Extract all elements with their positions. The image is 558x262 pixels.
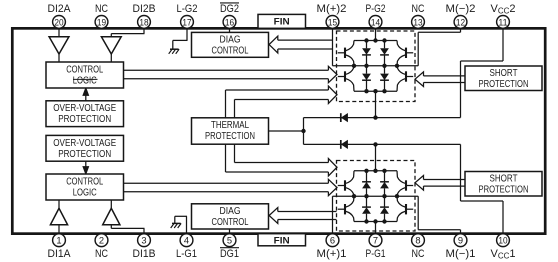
svg-text:M(+)2: M(+)2 xyxy=(317,3,347,15)
pin 11 (VCC2) top xyxy=(497,16,510,29)
svg-text:NC: NC xyxy=(95,248,108,260)
pin 12 (M(−)2) top xyxy=(454,16,467,29)
wire Vcc1 up to sense line 1 xyxy=(460,144,462,201)
IC package outline xyxy=(12,28,545,233)
svg-text:PROTECTION: PROTECTION xyxy=(205,131,255,142)
svg-text:17: 17 xyxy=(182,17,191,28)
thermal protection box xyxy=(192,118,269,144)
bridge 2 (output stage 2) top rail xyxy=(354,40,397,42)
wire pin1 to buffer A1 xyxy=(58,224,60,234)
pin label VCC2 xyxy=(490,3,515,16)
svg-text:13: 13 xyxy=(413,17,422,28)
svg-text:DG1: DG1 xyxy=(220,248,239,260)
transistor bridge 2 (output stage 2) lower-left xyxy=(338,66,354,91)
diode bridge 1 (output stage 1) lower col x=366.5 xyxy=(362,196,371,221)
wire pin10 Vcc1 riser xyxy=(502,201,504,236)
block arrow bridge 2 to diag control 2 xyxy=(269,36,333,53)
svg-text:P-G2: P-G2 xyxy=(366,3,386,15)
svg-text:NC: NC xyxy=(412,3,425,15)
wire M(-)1 drop xyxy=(417,196,419,230)
svg-text:8: 8 xyxy=(415,236,420,247)
wire M(-)1 from bridge 1 node xyxy=(397,195,419,197)
wire M(+)1 into bridge 1 xyxy=(333,195,355,197)
pin label M(-)1 xyxy=(446,248,476,260)
svg-text:14: 14 xyxy=(371,17,381,28)
wire pin17 elbow xyxy=(173,39,188,41)
svg-text:THERMAL: THERMAL xyxy=(211,120,249,131)
svg-text:LOGIC: LOGIC xyxy=(73,188,97,199)
svg-text:DIAG: DIAG xyxy=(220,35,241,46)
wire pin3 riser xyxy=(143,228,145,233)
svg-text:M(−)2: M(−)2 xyxy=(446,3,476,15)
block arrow thermal protection to bridge 1 (risers) xyxy=(234,144,236,162)
svg-text:FIN: FIN xyxy=(274,16,290,27)
wire M(-)2 riser xyxy=(417,32,419,66)
bridge 2 (output stage 2) bottom rail xyxy=(354,90,397,92)
wire pin3 elbow horizontal xyxy=(111,227,144,229)
svg-text:OVER-VOLTAGE: OVER-VOLTAGE xyxy=(53,138,116,149)
buffer DI1A input xyxy=(50,208,67,225)
bridge 1 (output stage 1) dashed box xyxy=(337,161,416,232)
wire pin20 to buffer A2 xyxy=(58,28,60,38)
pin label P-G2 xyxy=(366,3,386,15)
wire sense line 2 xyxy=(304,117,461,119)
buffer DI2B input xyxy=(101,37,121,54)
svg-text:9: 9 xyxy=(458,236,463,247)
strikethrough artifact over LOGIC (top) xyxy=(73,78,98,80)
svg-text:SHORT: SHORT xyxy=(490,174,518,185)
wire pin4 riser xyxy=(186,216,188,233)
diode bridge 2 (output stage 2) upper col x=384.5 xyxy=(380,41,389,66)
transistor bridge 1 (output stage 1) lower-left xyxy=(338,196,354,221)
wire buffer B1 to control logic 1 xyxy=(110,200,112,209)
node thermal junction xyxy=(301,129,305,133)
wire pin14 P-G2 riser xyxy=(375,28,377,40)
wire Vcc2 down to sense line 2 xyxy=(460,61,462,118)
wire thermal junction vertical xyxy=(303,118,305,145)
svg-text:DI2B: DI2B xyxy=(133,3,156,15)
ground G1 (logic ground) xyxy=(171,223,181,228)
svg-text:4: 4 xyxy=(184,236,190,247)
buffer DI1B input xyxy=(103,208,120,225)
pin label NC (2) xyxy=(95,248,108,260)
wire stub to buffer B2 top xyxy=(110,34,112,38)
pin label M(+)2 xyxy=(317,3,347,15)
transistor bridge 1 (output stage 1) upper-right xyxy=(397,171,413,196)
svg-text:3: 3 xyxy=(141,236,146,247)
pin label NC (13) xyxy=(412,3,425,15)
pin label L-G2 xyxy=(177,3,198,15)
svg-text:6: 6 xyxy=(330,236,335,247)
wire pin15 M(+)2 riser xyxy=(332,28,334,66)
node sense 2 / bridge 2 drop xyxy=(373,115,377,119)
svg-text:DI1B: DI1B xyxy=(133,248,156,260)
block arrow short protection 1 to bridge 1 xyxy=(415,176,465,191)
svg-text:NC: NC xyxy=(412,248,425,260)
diode bridge 2 (output stage 2) upper col x=366.5 xyxy=(362,41,371,66)
diag control 2 box xyxy=(192,32,269,57)
svg-text:CONTROL: CONTROL xyxy=(66,177,103,188)
buffer DI2A input xyxy=(49,37,69,54)
transistor bridge 2 (output stage 2) upper-left xyxy=(338,41,354,66)
pin 15 (M(+)2) top xyxy=(326,16,339,29)
svg-text:LOGIC: LOGIC xyxy=(73,76,97,87)
diode bridge 1 (output stage 1) upper col x=384.5 xyxy=(380,171,389,196)
svg-text:5: 5 xyxy=(227,236,232,247)
svg-text:M(−)1: M(−)1 xyxy=(446,248,476,260)
svg-text:2: 2 xyxy=(99,236,104,247)
junction dots bridge 1 (output stage 1) xyxy=(352,169,399,224)
pin 7 (P-G1) bottom xyxy=(369,234,382,247)
transistor bridge 1 (output stage 1) lower-right xyxy=(397,196,413,221)
bridge 1 (output stage 1) top rail xyxy=(354,170,397,172)
block arrow thermal protection to bridge 2 xyxy=(226,86,338,104)
wire pin16 to diag control 2 xyxy=(229,27,231,33)
short protection 1 box xyxy=(465,172,542,197)
wire stub to ground 1 xyxy=(174,216,176,223)
FIN tab box (top) xyxy=(258,14,306,28)
pin 5 (DG1) bottom xyxy=(223,234,236,247)
svg-text:OVER-VOLTAGE: OVER-VOLTAGE xyxy=(53,103,116,114)
bridge 1 (output stage 1) bottom rail xyxy=(354,221,397,223)
wire pin18 elbow horizontal xyxy=(111,33,144,35)
FIN tab box (bottom) xyxy=(258,234,306,246)
block arrow control logic 2 to bridge 2 xyxy=(124,66,338,82)
pin 2 (NC) bottom xyxy=(95,234,108,247)
pin label DI2B xyxy=(133,3,156,15)
bridge 1 (output stage 1) mid rail xyxy=(354,195,397,197)
svg-text:L-G2: L-G2 xyxy=(177,3,198,15)
wire over-voltage 2 to control logic 2 xyxy=(85,88,87,101)
svg-text:15: 15 xyxy=(328,17,337,28)
pin 13 (NC) top xyxy=(412,16,425,29)
wire pin7 P-G1 riser xyxy=(375,222,377,234)
pin 20 (DI2A) top xyxy=(53,16,66,29)
transistor bridge 2 (output stage 2) lower-right xyxy=(397,66,413,91)
wire M(-)2 horizontal xyxy=(418,31,460,33)
pin 17 (L-G2) top xyxy=(181,16,194,29)
pin label P-G1 xyxy=(366,248,386,260)
svg-text:DI2A: DI2A xyxy=(48,3,72,15)
over-voltage protection 2 box xyxy=(46,101,124,127)
svg-text:CONTROL: CONTROL xyxy=(212,45,249,56)
pin 4 (L-G1) bottom xyxy=(180,234,193,247)
wire buffer A2 to control logic 2 xyxy=(58,54,60,63)
svg-text:20: 20 xyxy=(54,17,63,28)
pin label DG2 (with overline) xyxy=(220,3,239,15)
arrowhead up into control logic 2 xyxy=(83,88,88,95)
arrowhead down into control logic 1 xyxy=(83,167,88,174)
wire M(-)1 to pin9 xyxy=(460,230,462,236)
pin 10 (VCC1) bottom xyxy=(497,234,510,247)
wire buffer A1 to control logic 1 xyxy=(58,200,60,209)
svg-text:10: 10 xyxy=(498,236,507,247)
wire M(-)2 to pin12 xyxy=(460,27,462,33)
bridge 2 (output stage 2) mid rail xyxy=(354,65,397,67)
pin 1 (DI1A) bottom xyxy=(53,234,66,247)
wire bridge 1 top rail riser xyxy=(375,144,377,170)
diode bridge 1 (output stage 1) upper col x=366.5 xyxy=(362,171,371,196)
svg-text:CONTROL: CONTROL xyxy=(212,217,249,228)
svg-text:NC: NC xyxy=(95,3,108,15)
svg-text:SHORT: SHORT xyxy=(490,68,518,79)
diode bridge 1 (output stage 1) lower col x=384.5 xyxy=(380,196,389,221)
wire pin11 Vcc2 drop xyxy=(502,27,504,62)
wire Vcc1 horizontal xyxy=(461,200,504,202)
pin 14 (P-G2) top xyxy=(369,16,382,29)
svg-text:PROTECTION: PROTECTION xyxy=(479,79,529,90)
short protection 2 box xyxy=(465,66,542,91)
diode bridge 2 (output stage 2) lower col x=366.5 xyxy=(362,66,371,91)
svg-text:1: 1 xyxy=(56,236,61,247)
wire pin6 M(+)1 riser xyxy=(332,196,334,234)
diode D2 (sense line 2 to thermal junction) xyxy=(341,113,348,122)
pin label M(+)1 xyxy=(317,248,347,260)
svg-text:PROTECTION: PROTECTION xyxy=(479,185,529,196)
node sense 1 / bridge 1 riser xyxy=(373,142,377,146)
wire M(-)1 horizontal xyxy=(418,229,460,231)
transistor bridge 2 (output stage 2) upper-right xyxy=(397,41,413,66)
svg-text:7: 7 xyxy=(373,236,378,247)
pin 3 (DI1B) bottom xyxy=(138,234,151,247)
svg-text:L-G1: L-G1 xyxy=(176,248,197,260)
pin 16 (DG2) top xyxy=(223,16,236,29)
svg-text:12: 12 xyxy=(456,17,465,28)
pin label NC (19) xyxy=(95,3,108,15)
svg-text:18: 18 xyxy=(139,17,148,28)
wire buffer B2 to control logic 2 xyxy=(110,54,112,63)
pin 18 (DI2B) top xyxy=(138,16,151,29)
wire M(+)2 into bridge 2 xyxy=(333,65,355,67)
pin label DI1A xyxy=(48,248,72,260)
pin label VCC1 xyxy=(490,248,515,261)
over-voltage protection 1 box xyxy=(46,135,124,161)
control logic 1 box xyxy=(46,174,124,200)
diode D1 (sense line 1 to thermal junction) xyxy=(341,140,348,149)
wire thermal protection to junction xyxy=(269,130,304,132)
bridge 2 (output stage 2) dashed box xyxy=(337,31,416,102)
pin 8 (NC) bottom xyxy=(412,234,425,247)
svg-text:CONTROL: CONTROL xyxy=(66,65,103,76)
diag control 1 box xyxy=(192,204,269,229)
pin label DI1B xyxy=(133,248,156,260)
wire bridge 2 bottom rail drop xyxy=(375,91,377,117)
wire M(-)2 from bridge 2 node xyxy=(397,65,419,67)
transistor bridge 1 (output stage 1) upper-left xyxy=(338,171,354,196)
wire pin18 drop xyxy=(143,28,145,33)
block arrow bridge 1 to diag control 1 xyxy=(269,208,336,224)
svg-text:PROTECTION: PROTECTION xyxy=(58,114,111,125)
wire stub to ground 2 xyxy=(172,40,174,49)
control logic 2 box xyxy=(46,62,124,88)
junction dots bridge 2 (output stage 2) xyxy=(352,38,399,93)
wire sense line 1 xyxy=(304,143,461,145)
pin label DG1 (with overline) xyxy=(220,248,239,260)
pin 6 (M(+)1) bottom xyxy=(326,234,339,247)
svg-text:M(+)1: M(+)1 xyxy=(317,248,347,260)
svg-text:DG2: DG2 xyxy=(220,3,239,15)
diode bridge 2 (output stage 2) lower col x=384.5 xyxy=(380,66,389,91)
block arrow thermal protection to bridge 1 xyxy=(226,159,338,177)
pin label DI2A xyxy=(48,3,72,15)
pin 9 (M(−)1) bottom xyxy=(454,234,467,247)
block arrow short protection 2 to bridge 2 xyxy=(415,72,465,87)
svg-text:DIAG: DIAG xyxy=(220,206,241,217)
wire stub to buffer B1 xyxy=(110,224,112,228)
wire pin4 elbow xyxy=(175,215,187,217)
block arrow thermal protection to bridge 2 (risers) xyxy=(225,90,227,118)
pin label L-G1 xyxy=(176,248,197,260)
pin label M(-)2 xyxy=(446,3,476,15)
wire Vcc2 horizontal xyxy=(461,60,504,62)
block arrow control logic 1 to bridge 1 xyxy=(124,179,338,195)
svg-text:11: 11 xyxy=(498,17,507,28)
wire over-voltage 1 to control logic 1 xyxy=(85,161,87,174)
svg-text:16: 16 xyxy=(225,17,234,28)
svg-text:19: 19 xyxy=(97,17,106,28)
wire pin5 to diag control 1 xyxy=(229,229,231,236)
ground G2 (logic ground) xyxy=(169,49,179,54)
wire pin17 drop xyxy=(186,28,188,40)
svg-text:P-G1: P-G1 xyxy=(366,248,386,260)
svg-text:DI1A: DI1A xyxy=(48,248,72,260)
pin label NC (8) xyxy=(412,248,425,260)
pin 19 (NC) top xyxy=(95,16,108,29)
svg-text:FIN: FIN xyxy=(274,235,290,246)
svg-text:PROTECTION: PROTECTION xyxy=(58,149,111,160)
